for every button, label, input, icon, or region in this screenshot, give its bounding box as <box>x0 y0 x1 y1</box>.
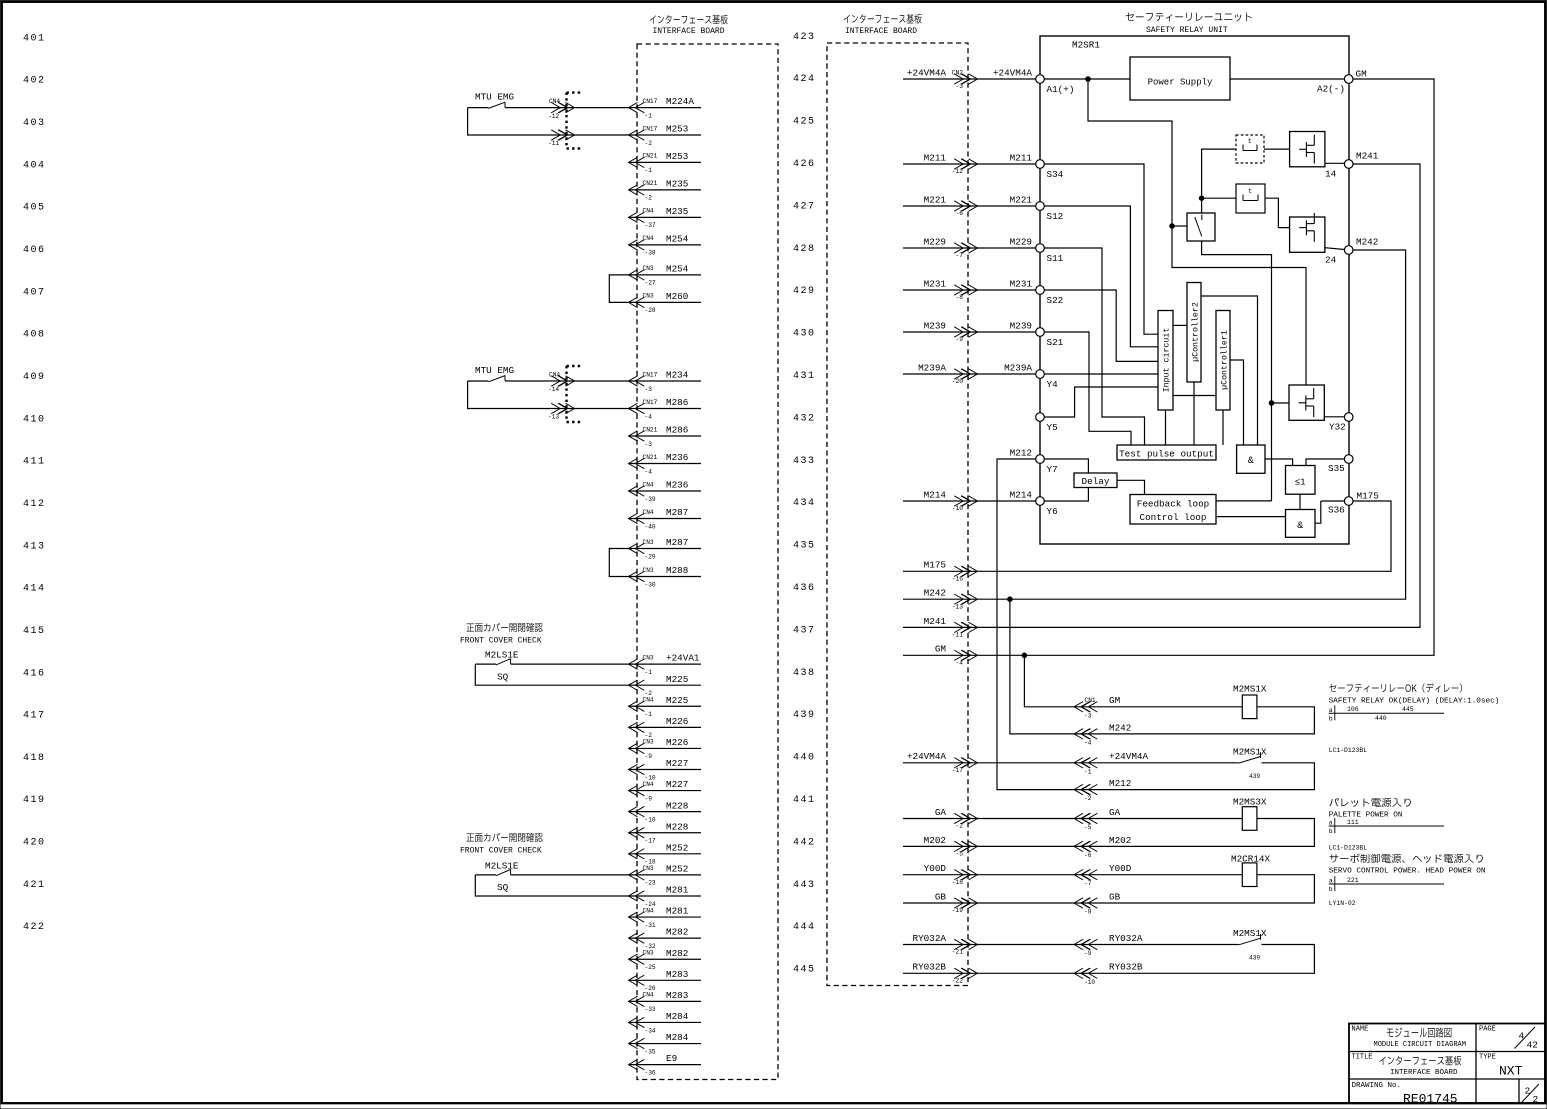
svg-text:409: 409 <box>23 372 46 383</box>
svg-text:-13: -13 <box>548 414 559 421</box>
svg-text:M211: M211 <box>924 152 947 163</box>
svg-text:&: & <box>1297 521 1303 532</box>
wire power supply to A2(-) terminal GM <box>1230 78 1345 80</box>
svg-text:CN17: CN17 <box>643 399 658 406</box>
connector CN pin -2 signal M225 <box>629 684 702 686</box>
svg-text:M253: M253 <box>666 151 688 162</box>
connector CN3 pin -28 signal M260 <box>629 301 702 303</box>
svg-text:M287: M287 <box>666 537 688 548</box>
wire feedback loop to Y32 gate net <box>1216 500 1272 502</box>
connector CN pin -35 signal M284 <box>629 1043 702 1045</box>
connector CN pin -26 signal M283 <box>629 979 702 981</box>
svg-text:432: 432 <box>793 413 816 424</box>
svg-text:-29: -29 <box>645 553 656 560</box>
svg-text:-12: -12 <box>548 113 559 120</box>
svg-text:M242: M242 <box>924 588 946 599</box>
power supply box <box>1130 57 1230 100</box>
svg-text:Power Supply: Power Supply <box>1148 77 1213 87</box>
svg-text:M281: M281 <box>666 885 689 896</box>
wire transistor Q3 output to terminal Y32 <box>1324 416 1344 418</box>
wire transistor Q1 output to terminal 14 <box>1325 162 1345 164</box>
wire Y6 to delay box <box>1044 488 1088 502</box>
svg-text:428: 428 <box>793 244 816 255</box>
svg-text:Y00D: Y00D <box>1109 863 1132 874</box>
svg-text:427: 427 <box>793 201 816 212</box>
svg-text:-11: -11 <box>952 632 963 639</box>
svg-text:Y5: Y5 <box>1047 422 1058 433</box>
svg-text:426: 426 <box>793 159 816 170</box>
svg-text:433: 433 <box>793 456 816 467</box>
svg-text:M231: M231 <box>924 278 947 289</box>
svg-text:Y6: Y6 <box>1047 506 1058 517</box>
safety relay unit M2SR1 outline <box>1040 36 1349 544</box>
net M241 loop from terminal to board pin -11 <box>903 164 1420 627</box>
svg-text:-9: -9 <box>645 795 653 802</box>
feedback loop control loop box <box>1130 495 1216 525</box>
svg-text:439: 439 <box>1249 955 1260 962</box>
svg-text:CN4: CN4 <box>643 907 654 914</box>
contact cross reference a221 <box>1329 883 1444 885</box>
wire M212 from Y7 down to CN1-2 <box>997 459 1074 790</box>
svg-text:M2MS1X: M2MS1X <box>1233 684 1267 695</box>
connector CN3 pin -9 signal M226 <box>629 747 702 749</box>
connector CN pin -10 signal M227 <box>629 769 702 771</box>
svg-text:CN3: CN3 <box>643 865 654 872</box>
svg-text:Y32: Y32 <box>1329 422 1346 433</box>
svg-text:M282: M282 <box>666 948 688 959</box>
svg-text:445: 445 <box>1402 706 1414 713</box>
svg-text:445: 445 <box>793 965 816 976</box>
wire S22 to input circuit <box>1044 290 1158 361</box>
svg-text:CN3: CN3 <box>643 539 654 546</box>
svg-text:417: 417 <box>23 711 46 722</box>
wire S12 to input circuit <box>1044 206 1158 347</box>
svg-text:Y00D: Y00D <box>924 863 947 874</box>
wire transistor Q2 output to terminal 24 <box>1325 248 1345 250</box>
wire S21 to test pulse output <box>1044 332 1131 445</box>
svg-text:438: 438 <box>793 668 816 679</box>
junction GM branch <box>1022 653 1027 658</box>
svg-text:a: a <box>1329 820 1333 827</box>
svg-text:CN17: CN17 <box>643 371 658 378</box>
wire input circuit to microcontroller 1 <box>1173 395 1216 397</box>
terminal Y4 <box>1036 370 1045 379</box>
microcontroller 2 box <box>1187 283 1201 383</box>
wire A1(+) to power supply <box>1044 78 1130 80</box>
wire contact K2 to transistor Q2 <box>1265 198 1290 227</box>
svg-text:a: a <box>1329 878 1333 885</box>
terminal S12 <box>1036 202 1045 211</box>
wire delay to feedback loop box <box>1117 480 1145 494</box>
svg-text:M254: M254 <box>666 264 689 275</box>
svg-text:Y4: Y4 <box>1047 379 1059 390</box>
svg-text:M227: M227 <box>666 779 688 790</box>
wire microcontroller 2 to AND gate <box>1201 296 1258 445</box>
board output M214 pin -10 to safety relay unit <box>903 500 1036 502</box>
svg-text:a: a <box>1329 707 1333 714</box>
wire switch feed <box>1172 225 1187 227</box>
svg-text:-1: -1 <box>645 711 653 718</box>
svg-text:TITLE: TITLE <box>1352 1054 1373 1062</box>
terminal A1(+) <box>1036 75 1045 84</box>
svg-text:-8: -8 <box>956 294 964 301</box>
svg-text:-18: -18 <box>952 879 963 886</box>
svg-text:M281: M281 <box>666 906 689 917</box>
wire S34 to input circuit <box>1044 164 1158 334</box>
svg-text:t: t <box>1248 188 1252 195</box>
svg-text:-14: -14 <box>548 386 559 393</box>
svg-text:NXT: NXT <box>1499 1064 1523 1079</box>
svg-text:M229: M229 <box>1010 236 1032 247</box>
svg-text:M214: M214 <box>1010 489 1033 500</box>
connector CN3 pin -30 signal M288 <box>629 576 702 578</box>
svg-text:-9: -9 <box>956 336 964 343</box>
svg-text:M231: M231 <box>1010 278 1033 289</box>
connector CN pin -24 signal M281 <box>629 895 702 897</box>
svg-text:RE01745: RE01745 <box>1403 1092 1458 1107</box>
svg-text:+24VM4A: +24VM4A <box>1109 751 1148 762</box>
annotation palette power on <box>1329 798 1410 807</box>
wire Y7 to delay box <box>1044 459 1088 473</box>
limit switch M2LS1E front cover check (lower) <box>466 833 542 842</box>
svg-text:M287: M287 <box>666 507 688 518</box>
middle interface board dashed outline <box>827 43 968 986</box>
svg-text:24: 24 <box>1325 255 1337 266</box>
wire input circuit to test pulse output <box>1165 410 1167 445</box>
svg-text:442: 442 <box>793 837 816 848</box>
svg-text:M214: M214 <box>924 489 947 500</box>
svg-text:221: 221 <box>1347 877 1359 884</box>
svg-text:GA: GA <box>1109 807 1121 818</box>
svg-text:M254: M254 <box>666 234 689 245</box>
svg-text:CN3: CN3 <box>643 950 654 957</box>
board entry M242 pin -13 <box>961 594 970 604</box>
svg-text:-10: -10 <box>952 505 963 512</box>
svg-text:M236: M236 <box>666 480 688 491</box>
svg-text:-19: -19 <box>952 907 963 914</box>
svg-text:2: 2 <box>1533 1094 1539 1105</box>
svg-text:M236: M236 <box>666 452 688 463</box>
junction M242 branch <box>1008 597 1013 602</box>
svg-text:-33: -33 <box>645 1006 656 1013</box>
svg-text:CN4: CN4 <box>643 509 654 516</box>
svg-text:M242: M242 <box>1356 237 1378 248</box>
svg-text:M225: M225 <box>666 695 688 706</box>
svg-text:S34: S34 <box>1047 169 1064 180</box>
junction contact K2 feed <box>1199 196 1204 201</box>
svg-text:M235: M235 <box>666 179 688 190</box>
svg-text:-1: -1 <box>645 112 653 119</box>
svg-text:M211: M211 <box>1010 152 1033 163</box>
svg-text:RY032A: RY032A <box>1109 933 1143 944</box>
annotation servo control power head power on <box>1329 854 1482 863</box>
svg-text:407: 407 <box>23 287 46 298</box>
terminal S35 (right edge) <box>1344 455 1353 464</box>
svg-text:Y7: Y7 <box>1047 464 1058 475</box>
svg-text:439: 439 <box>1249 773 1260 780</box>
terminal S34 <box>1036 160 1045 169</box>
svg-text:NAME: NAME <box>1352 1026 1369 1034</box>
middle interface board header (Japanese) <box>844 14 922 24</box>
svg-text:419: 419 <box>23 795 46 806</box>
terminal M242 (right edge) <box>1344 246 1353 255</box>
connector CN17 pin -1 signal M224A <box>629 107 702 109</box>
wire feedback loop to AND gate S36 <box>1216 516 1286 518</box>
test pulse output box <box>1117 445 1216 460</box>
board output M239 pin -9 to safety relay unit <box>903 331 1036 333</box>
svg-text:M239A: M239A <box>1004 362 1032 373</box>
connector CN21 pin -3 signal M286 <box>629 435 702 437</box>
connector CN pin -18 signal M252 <box>629 853 702 855</box>
svg-text:CN21: CN21 <box>643 153 658 160</box>
svg-text:M242: M242 <box>1109 722 1131 733</box>
svg-text:&: & <box>1248 456 1254 467</box>
svg-text:418: 418 <box>23 753 46 764</box>
svg-text:M2MS1X: M2MS1X <box>1233 747 1267 758</box>
svg-text:M286: M286 <box>666 397 688 408</box>
svg-text:S11: S11 <box>1047 253 1064 264</box>
svg-text:-16: -16 <box>952 576 963 583</box>
svg-text:MTU EMG: MTU EMG <box>475 92 514 103</box>
svg-text:-8: -8 <box>1084 909 1092 916</box>
connector CN3 pin -1 signal +24VA1 <box>629 663 702 665</box>
svg-text:-31: -31 <box>645 922 656 929</box>
left interface board dashed outline <box>637 44 778 1080</box>
svg-text:CN17: CN17 <box>643 125 658 132</box>
input circuit box <box>1158 311 1173 411</box>
wire M242 branch down to CN1-4 <box>1010 599 1074 734</box>
board output M231 pin -8 to safety relay unit <box>903 289 1036 291</box>
svg-text:M2LS1E: M2LS1E <box>485 650 519 661</box>
svg-text:-3: -3 <box>956 83 964 90</box>
svg-text:CN4: CN4 <box>643 481 654 488</box>
svg-text:M228: M228 <box>666 821 688 832</box>
connector CN pin -32 signal M282 <box>629 937 702 939</box>
svg-text:CN2: CN2 <box>952 69 963 76</box>
svg-text:GA: GA <box>935 807 947 818</box>
svg-text:M2SR1: M2SR1 <box>1072 40 1100 51</box>
output transistor Q1 (M241) <box>1290 132 1325 167</box>
wire microcontroller 1 to AND gate <box>1230 360 1244 445</box>
svg-text:-5: -5 <box>1084 824 1092 831</box>
output transistor Q2 (M242) <box>1290 217 1325 252</box>
svg-text:-23: -23 <box>645 880 656 887</box>
net GM loop from terminal A2 to board pin -4 <box>903 79 1434 655</box>
wire switch top to contact K1 and transistor Q1 <box>1202 149 1236 213</box>
svg-text:431: 431 <box>793 371 816 382</box>
svg-text:-35: -35 <box>645 1048 656 1055</box>
wire S11 to test pulse output <box>1044 248 1144 445</box>
svg-text:M226: M226 <box>666 716 688 727</box>
svg-text:M239: M239 <box>924 320 946 331</box>
svg-text:LC1-D123BL: LC1-D123BL <box>1329 747 1368 754</box>
svg-text:+24VM4A: +24VM4A <box>907 67 946 78</box>
contact cross reference a106/445 b440 <box>1329 712 1444 714</box>
svg-text:M234: M234 <box>666 370 689 381</box>
svg-text:M252: M252 <box>666 864 688 875</box>
svg-text:M284: M284 <box>666 1032 689 1043</box>
net M242 loop from terminal to board pin -13 <box>903 250 1406 599</box>
board output M229 pin -7 to safety relay unit <box>903 247 1036 249</box>
svg-text:443: 443 <box>793 880 816 891</box>
svg-text:413: 413 <box>23 541 46 552</box>
title block outline <box>1349 1024 1545 1104</box>
svg-text:-4: -4 <box>956 660 964 667</box>
svg-text:-37: -37 <box>645 222 656 229</box>
svg-text:-11: -11 <box>548 140 559 147</box>
svg-text:SQ: SQ <box>497 671 509 682</box>
svg-text:M282: M282 <box>666 927 688 938</box>
terminal M175 (right edge) <box>1344 497 1353 506</box>
svg-text:GB: GB <box>1109 891 1121 902</box>
svg-text:440: 440 <box>1375 715 1387 722</box>
svg-text:S21: S21 <box>1047 337 1064 348</box>
svg-text:CN3: CN3 <box>643 739 654 746</box>
svg-text:GB: GB <box>935 891 947 902</box>
svg-text:14: 14 <box>1325 169 1337 180</box>
svg-text:RY032A: RY032A <box>913 933 947 944</box>
svg-text:Delay: Delay <box>1082 476 1110 487</box>
connector CN pin -2 signal M226 <box>629 726 702 728</box>
svg-text:-10: -10 <box>1084 979 1095 986</box>
svg-text:-13: -13 <box>952 603 963 610</box>
relay contact K1 (time delay, dashed) <box>1236 135 1264 163</box>
svg-text:-17: -17 <box>645 838 656 845</box>
svg-text:M175: M175 <box>924 560 946 571</box>
svg-text:422: 422 <box>23 922 46 933</box>
svg-text:-30: -30 <box>645 581 656 588</box>
svg-text:2: 2 <box>1525 1086 1531 1097</box>
svg-text:-9: -9 <box>645 753 653 760</box>
svg-text:-20: -20 <box>952 378 963 385</box>
wire contact K2 feed <box>1202 197 1236 199</box>
svg-text:PAGE: PAGE <box>1479 1026 1496 1034</box>
terminal S22 <box>1036 286 1045 295</box>
svg-text:436: 436 <box>793 583 816 594</box>
svg-text:Input circuit: Input circuit <box>1162 328 1172 393</box>
svg-text:420: 420 <box>23 838 46 849</box>
svg-text:+24VM4A: +24VM4A <box>993 67 1032 78</box>
svg-text:405: 405 <box>23 203 46 214</box>
svg-text:CN4: CN4 <box>549 371 560 378</box>
svg-text:434: 434 <box>793 498 816 509</box>
svg-text:A2(-): A2(-) <box>1317 84 1345 95</box>
svg-text:403: 403 <box>23 118 46 129</box>
svg-text:PALETTE POWER ON: PALETTE POWER ON <box>1329 812 1403 820</box>
svg-text:-21: -21 <box>952 949 963 956</box>
svg-text:-7: -7 <box>956 252 964 259</box>
delay box <box>1074 473 1117 488</box>
relay contact K2 (time delay) <box>1236 184 1265 213</box>
svg-text:423: 423 <box>793 32 816 43</box>
svg-text:M225: M225 <box>666 674 688 685</box>
connector CN3 pin -27 signal M254 <box>629 274 702 276</box>
AND gate (test pulse monitor) <box>1237 445 1265 473</box>
svg-text:+24VM4A: +24VM4A <box>907 751 946 762</box>
svg-text:M241: M241 <box>924 616 947 627</box>
svg-text:DRAWING No.: DRAWING No. <box>1352 1082 1402 1090</box>
svg-text:-40: -40 <box>645 523 656 530</box>
svg-text:M221: M221 <box>1010 194 1033 205</box>
svg-text:441: 441 <box>793 795 816 806</box>
connector CN4 pin -1 signal M225 <box>629 705 702 707</box>
connector CN21 pin -2 signal M235 <box>629 189 702 191</box>
svg-text:CN3: CN3 <box>643 293 654 300</box>
connector CN17 pin -3 signal M234 <box>629 380 702 382</box>
terminal M241 (right edge) <box>1344 160 1353 169</box>
svg-text:-25: -25 <box>645 964 656 971</box>
board output +24VM4A pin -3 to safety relay unit <box>903 78 1036 80</box>
svg-text:CN3: CN3 <box>643 654 654 661</box>
wire AND gate to OR gate <box>1265 459 1293 466</box>
svg-text:411: 411 <box>23 457 46 468</box>
svg-text:LY1N-02: LY1N-02 <box>1329 900 1356 907</box>
connector CN17 pin -4 signal M286 <box>629 408 702 410</box>
svg-text:CN17: CN17 <box>643 98 658 105</box>
svg-text:CN21: CN21 <box>643 180 658 187</box>
svg-text:FRONT COVER CHECK: FRONT COVER CHECK <box>460 847 542 856</box>
svg-text:-9: -9 <box>1084 950 1092 957</box>
svg-text:-22: -22 <box>952 978 963 985</box>
svg-text:FRONT COVER CHECK: FRONT COVER CHECK <box>460 636 542 645</box>
connector CN21 pin -1 signal M253 <box>629 161 702 163</box>
svg-text:M239A: M239A <box>918 362 946 373</box>
svg-text:-2: -2 <box>645 140 653 147</box>
svg-text:MODULE CIRCUIT DIAGRAM: MODULE CIRCUIT DIAGRAM <box>1374 1041 1466 1049</box>
connector CN4 pin -9 signal M227 <box>629 790 702 792</box>
svg-text:t: t <box>1248 138 1252 145</box>
svg-text:-1: -1 <box>645 167 653 174</box>
svg-text:-4: -4 <box>645 413 653 420</box>
connector CN4 pin -37 signal M235 <box>629 216 702 218</box>
svg-text:437: 437 <box>793 625 816 636</box>
svg-text:M212: M212 <box>1109 778 1131 789</box>
svg-text:CN1: CN1 <box>1085 697 1096 704</box>
svg-text:SQ: SQ <box>497 882 509 893</box>
svg-text:S12: S12 <box>1047 211 1064 222</box>
terminal S11 <box>1036 244 1045 253</box>
terminal Y5 <box>1036 413 1045 422</box>
wire A1 branch down to Y32 transistor collector <box>1088 79 1306 385</box>
svg-text:416: 416 <box>23 668 46 679</box>
svg-text:M2MS1X: M2MS1X <box>1233 928 1267 939</box>
board output M221 pin -6 to safety relay unit <box>903 205 1036 207</box>
wire input circuit to microcontroller 2 <box>1173 324 1187 326</box>
connector CN3 pin -29 signal M287 <box>629 548 702 550</box>
svg-text:-36: -36 <box>645 1069 656 1076</box>
svg-text:M239: M239 <box>1010 320 1032 331</box>
svg-text:440: 440 <box>793 753 816 764</box>
connector CN3 pin -23 signal M252 <box>629 874 702 876</box>
svg-text:INTERFACE BOARD: INTERFACE BOARD <box>845 27 917 36</box>
svg-text:M227: M227 <box>666 758 688 769</box>
svg-text:M221: M221 <box>924 194 947 205</box>
svg-text:SAFETY RELAY OK(DELAY) (DELAY:: SAFETY RELAY OK(DELAY) (DELAY:1.0sec) <box>1329 698 1500 706</box>
jumper wire CN3-27 to CN3-28 <box>609 275 632 303</box>
svg-text:M202: M202 <box>924 835 946 846</box>
wire GM branch down to CN1-3 <box>1024 655 1074 707</box>
svg-text:-3: -3 <box>645 386 653 393</box>
connector CN4 pin -40 signal M287 <box>629 518 702 520</box>
terminal S21 <box>1036 328 1045 337</box>
output transistor Q3 (Y32) <box>1289 385 1324 420</box>
svg-text:M202: M202 <box>1109 835 1131 846</box>
svg-text:SAFETY RELAY UNIT: SAFETY RELAY UNIT <box>1146 26 1228 35</box>
svg-text:429: 429 <box>793 286 816 297</box>
svg-text:-1: -1 <box>1084 768 1092 775</box>
wire AND gate S36 to M175 terminal <box>1315 501 1321 523</box>
svg-text:M2LS1E: M2LS1E <box>485 860 519 871</box>
